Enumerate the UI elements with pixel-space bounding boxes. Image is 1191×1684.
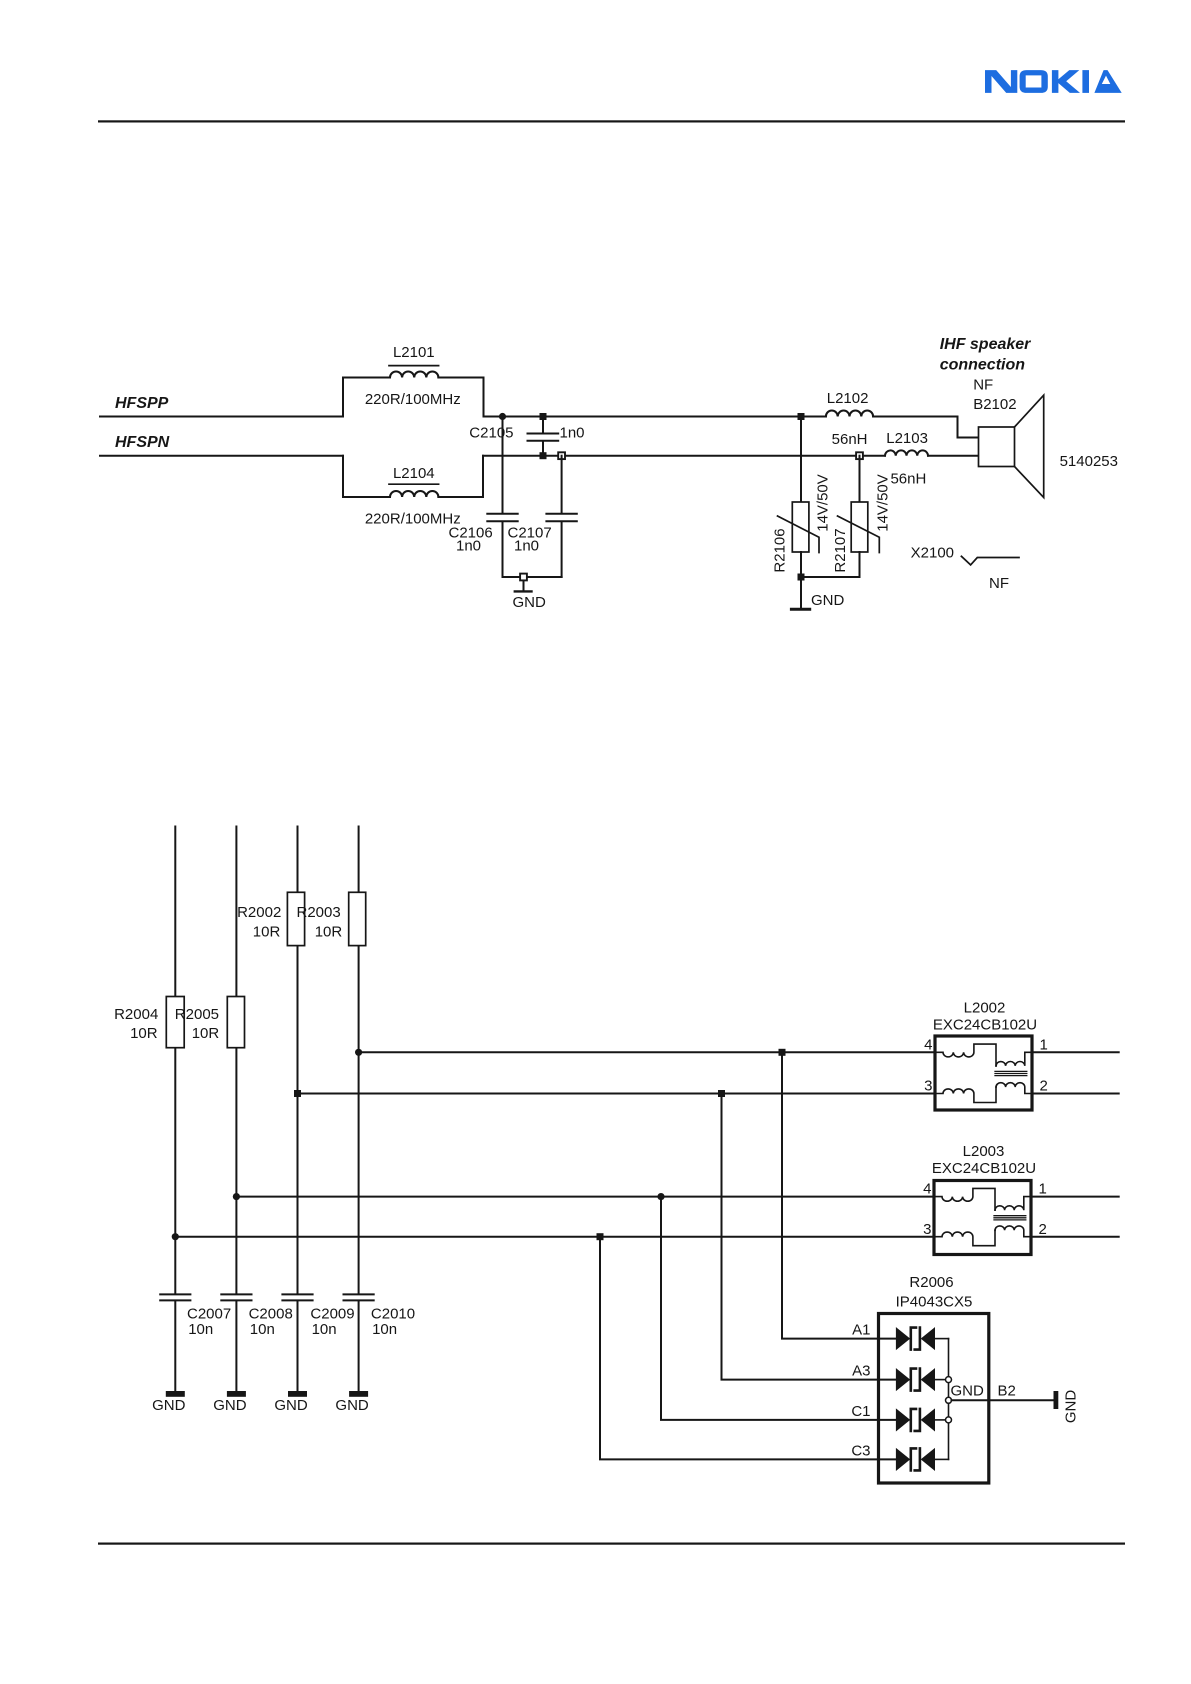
- svg-text:R2106: R2106: [772, 528, 789, 572]
- ground GND C2010: [335, 1391, 369, 1414]
- svg-text:C3: C3: [851, 1442, 870, 1459]
- svg-text:R2005: R2005: [175, 1006, 219, 1023]
- svg-text:10n: 10n: [312, 1321, 337, 1338]
- node HFSPN label: [115, 434, 170, 451]
- wire HFSPP mid: [484, 416, 826, 418]
- diode pair C3: [896, 1448, 948, 1470]
- ground GND (R2106/R2107): [791, 577, 844, 609]
- node square col3/bus B: [294, 1090, 301, 1097]
- svg-text:A3: A3: [852, 1363, 870, 1380]
- svg-text:HFSPP: HFSPP: [115, 395, 169, 412]
- ground GND C2007: [152, 1391, 186, 1414]
- capacitor C2010: [344, 1294, 416, 1391]
- capacitor C2008: [221, 1294, 293, 1391]
- pin circle A3/GND: [946, 1377, 952, 1383]
- node square bus B / drop A3: [718, 1090, 725, 1097]
- wire bus C (col2 to L2003 pin4): [236, 1196, 934, 1198]
- svg-text:R2006: R2006: [909, 1274, 953, 1291]
- svg-text:C2009: C2009: [310, 1305, 354, 1322]
- capacitor C2105: [469, 417, 584, 456]
- node HFSPP label: [115, 395, 169, 412]
- svg-text:EXC24CB102U: EXC24CB102U: [933, 1016, 1037, 1033]
- svg-text:R2002: R2002: [237, 904, 281, 921]
- inductor L2104: [365, 465, 461, 528]
- wire L2002 pin1 out: [1032, 1051, 1119, 1053]
- svg-text:A1: A1: [852, 1322, 870, 1339]
- ground GND (B2, rotated): [1054, 1390, 1080, 1424]
- varistor R2107: [832, 456, 892, 577]
- wire L2101 right down: [438, 378, 483, 417]
- wire bus B (col3 to L2002 pin3): [298, 1093, 936, 1095]
- wire common cathode vertical: [948, 1339, 950, 1460]
- svg-text:220R/100MHz: 220R/100MHz: [365, 391, 461, 408]
- svg-text:GND: GND: [274, 1397, 308, 1414]
- inductor L2103: [885, 430, 928, 488]
- wire HFSPN left: [100, 455, 343, 457]
- svg-text:5140253: 5140253: [1060, 453, 1118, 470]
- svg-text:56nH: 56nH: [832, 431, 868, 448]
- svg-text:R2004: R2004: [114, 1006, 158, 1023]
- node square bus D / drop C3: [597, 1233, 604, 1240]
- diode pair C1: [896, 1409, 948, 1431]
- svg-text:L2002: L2002: [964, 999, 1006, 1016]
- svg-text:1n0: 1n0: [456, 538, 481, 555]
- svg-text:GND: GND: [513, 594, 547, 611]
- svg-text:10n: 10n: [250, 1321, 275, 1338]
- wire drop A1: [782, 1052, 896, 1338]
- ground GND C2009: [274, 1391, 308, 1414]
- ground GND (top circuit, C2106/C2107): [513, 581, 547, 611]
- svg-text:2: 2: [1040, 1078, 1048, 1095]
- capacitor C2007: [160, 1294, 231, 1391]
- footer rule: [98, 1543, 1125, 1545]
- node junction square R2106 GND: [798, 574, 805, 581]
- wire column 4: [358, 827, 360, 1295]
- wire drop C3: [600, 1237, 896, 1460]
- connector X2100: [911, 545, 1019, 593]
- svg-text:GND: GND: [951, 1383, 985, 1400]
- svg-text:4: 4: [924, 1036, 932, 1053]
- header rule: [98, 120, 1125, 122]
- varistor R2106: [772, 417, 832, 578]
- choke L2002: [924, 999, 1048, 1110]
- svg-text:GND: GND: [335, 1397, 369, 1414]
- wire L2002 pin2 out: [1032, 1093, 1119, 1095]
- svg-text:L2102: L2102: [827, 390, 869, 407]
- node junction open square HFSPN/C2107: [558, 452, 565, 459]
- svg-text:GND: GND: [811, 592, 845, 609]
- svg-text:GND: GND: [213, 1397, 247, 1414]
- inductor L2101: [365, 344, 461, 408]
- svg-text:220R/100MHz: 220R/100MHz: [365, 511, 461, 528]
- svg-text:NF: NF: [989, 575, 1009, 592]
- pin circle B2 tap: [946, 1397, 952, 1403]
- resistor R2002: [237, 892, 305, 945]
- svg-text:1: 1: [1040, 1036, 1048, 1053]
- svg-text:10R: 10R: [315, 923, 343, 940]
- wire HFSPP to speaker: [873, 417, 978, 438]
- wire bus D (col1 to L2003 pin3): [175, 1236, 934, 1238]
- speaker B2102: [940, 336, 1118, 498]
- node dot col1/bus D: [172, 1233, 179, 1240]
- svg-text:3: 3: [924, 1078, 932, 1095]
- wire B2 to ground: [952, 1399, 1054, 1401]
- capacitor C2009: [282, 1294, 354, 1391]
- wire column 3: [297, 827, 299, 1295]
- capacitor C2106: [449, 417, 518, 578]
- svg-text:3: 3: [923, 1221, 931, 1238]
- svg-text:C2008: C2008: [249, 1305, 293, 1322]
- resistor R2003: [297, 892, 366, 945]
- diode array R2006: [851, 1274, 1016, 1483]
- svg-text:X2100: X2100: [911, 545, 954, 562]
- capacitor C2107: [508, 456, 577, 577]
- inductor L2102: [826, 390, 873, 448]
- svg-text:14V/50V: 14V/50V: [815, 474, 832, 532]
- svg-text:10R: 10R: [253, 923, 281, 940]
- node dot col4/bus A: [355, 1049, 362, 1056]
- wire L2003 pin1 out: [1031, 1196, 1119, 1198]
- svg-text:1n0: 1n0: [514, 538, 539, 555]
- node junction square HFSPP/C2105: [540, 413, 547, 420]
- svg-text:R2003: R2003: [297, 904, 341, 921]
- diode pair A1: [896, 1328, 948, 1350]
- wire HFSPN to speaker: [928, 455, 979, 457]
- wire bus A (col4 to L2002 pin4): [359, 1051, 935, 1053]
- svg-text:C2010: C2010: [371, 1305, 415, 1322]
- node dot col2/bus C: [233, 1193, 240, 1200]
- svg-text:L2103: L2103: [886, 430, 928, 447]
- diode pair A3: [896, 1369, 948, 1391]
- pin circle C1/GND: [946, 1417, 952, 1423]
- svg-text:GND: GND: [152, 1397, 186, 1414]
- wire drop A3: [722, 1094, 897, 1380]
- wire HFSPP jog up to L2101: [343, 378, 390, 417]
- svg-text:IP4043CX5: IP4043CX5: [896, 1294, 973, 1311]
- svg-text:10R: 10R: [192, 1025, 220, 1042]
- wire HFSPN mid: [483, 455, 885, 457]
- svg-text:L2104: L2104: [393, 465, 435, 482]
- svg-text:2: 2: [1039, 1221, 1047, 1238]
- svg-text:1: 1: [1039, 1181, 1047, 1198]
- svg-text:10n: 10n: [188, 1321, 213, 1338]
- svg-text:14V/50V: 14V/50V: [875, 474, 892, 532]
- wire column 1: [174, 827, 176, 1295]
- node junction open square GND stem: [520, 574, 527, 581]
- svg-text:HFSPN: HFSPN: [115, 434, 170, 451]
- svg-text:GND: GND: [1063, 1390, 1080, 1424]
- wire L2104 right up: [438, 456, 483, 497]
- svg-text:C2105: C2105: [469, 425, 513, 442]
- svg-text:10R: 10R: [130, 1025, 158, 1042]
- wire column 2: [235, 827, 237, 1295]
- svg-text:connection: connection: [940, 356, 1026, 373]
- wire L2003 pin2 out: [1031, 1236, 1119, 1238]
- node junction dot HFSPP/C2106: [499, 413, 506, 420]
- wire R2106/R2107 bottom: [801, 576, 860, 578]
- svg-text:10n: 10n: [372, 1321, 397, 1338]
- svg-text:B2102: B2102: [973, 396, 1016, 413]
- svg-text:56nH: 56nH: [890, 470, 926, 487]
- node junction square HFSPP/R2106: [798, 413, 805, 420]
- wire drop C1: [661, 1197, 896, 1420]
- NOKIA logo: [985, 70, 1122, 93]
- node square bus A / drop A1: [779, 1049, 786, 1056]
- wire C2106/C2107 bottom loop: [503, 576, 562, 578]
- svg-text:L2101: L2101: [393, 344, 435, 361]
- svg-text:NF: NF: [973, 377, 993, 394]
- resistor R2005: [175, 997, 245, 1048]
- svg-text:L2003: L2003: [963, 1143, 1005, 1160]
- svg-text:C2007: C2007: [187, 1305, 231, 1322]
- svg-text:4: 4: [923, 1181, 931, 1198]
- svg-text:EXC24CB102U: EXC24CB102U: [932, 1160, 1036, 1177]
- resistor R2004: [114, 997, 184, 1048]
- svg-text:B2: B2: [998, 1383, 1016, 1400]
- svg-text:R2107: R2107: [832, 528, 849, 572]
- svg-text:1n0: 1n0: [560, 425, 585, 442]
- svg-text:C1: C1: [851, 1403, 870, 1420]
- node junction open square HFSPN/R2107: [856, 452, 863, 459]
- wire HFSPN jog down to L2104: [343, 456, 390, 497]
- node dot bus C / drop C1: [657, 1193, 664, 1200]
- choke L2003: [923, 1143, 1047, 1255]
- wire HFSPP left: [100, 416, 343, 418]
- node junction square HFSPN/C2105: [540, 452, 547, 459]
- ground GND C2008: [213, 1391, 247, 1414]
- svg-text:IHF speaker: IHF speaker: [940, 336, 1031, 353]
